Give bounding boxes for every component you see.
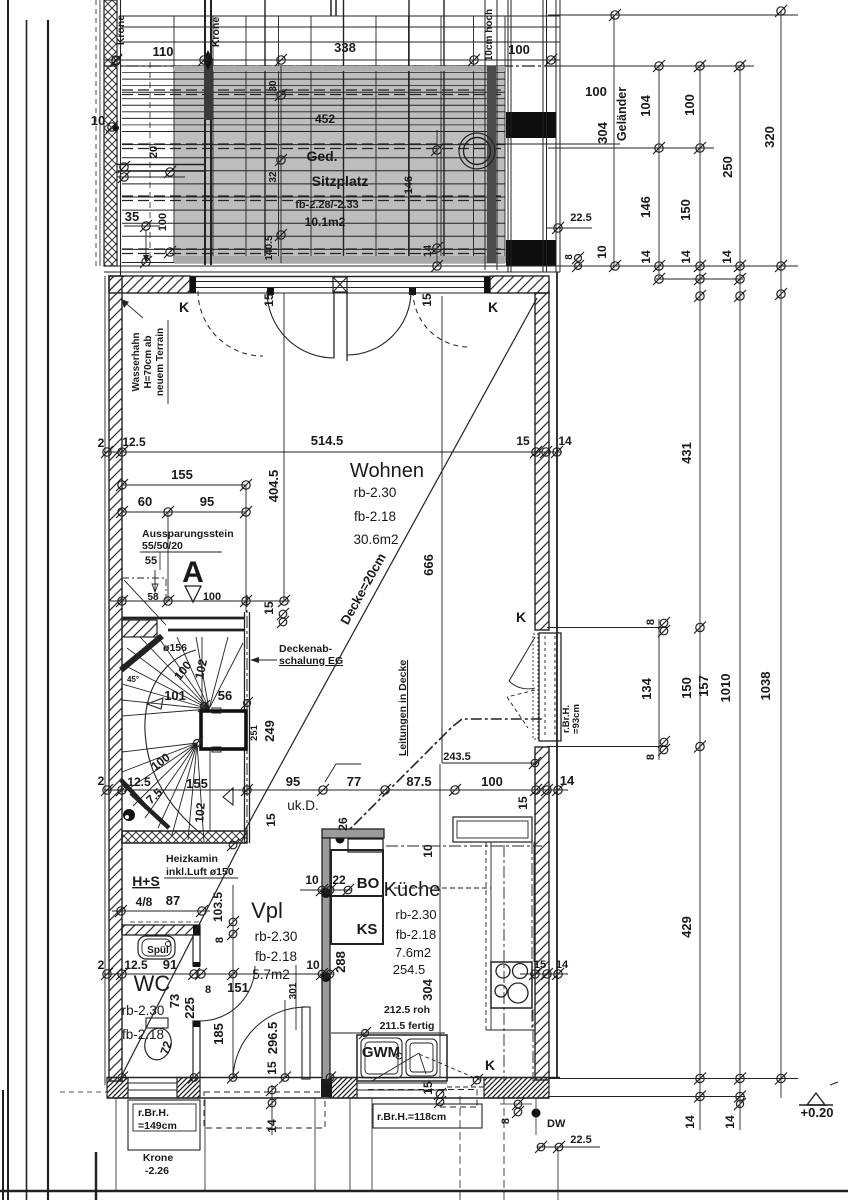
- bottom wall hatch blocks: [107, 1078, 128, 1099]
- bottom page border: [0, 1190, 848, 1192]
- dim 35 arrow: [145, 230, 147, 262]
- svg-text:12.5: 12.5: [127, 775, 151, 789]
- svg-text:404.5: 404.5: [266, 470, 281, 503]
- stair right wall double line: [244, 612, 246, 843]
- svg-text:15: 15: [265, 1061, 279, 1075]
- svg-text:Leitungen in Decke: Leitungen in Decke: [397, 660, 409, 756]
- svg-text:225: 225: [182, 997, 197, 1019]
- svg-text:8: 8: [564, 254, 575, 260]
- svg-text:243.5: 243.5: [443, 751, 471, 763]
- svg-text:15: 15: [516, 434, 530, 448]
- svg-text:GWM: GWM: [362, 1044, 400, 1061]
- svg-text:100: 100: [585, 84, 607, 99]
- svg-text:12.5: 12.5: [122, 435, 146, 449]
- terrace deck vertical joists: [173, 16, 175, 263]
- svg-text:666: 666: [421, 554, 436, 576]
- mid right dims 8/134/8 + 157/150: [547, 627, 668, 629]
- svg-text:301: 301: [288, 982, 299, 999]
- svg-text:8: 8: [205, 984, 211, 996]
- svg-text:26: 26: [336, 817, 350, 831]
- kamin crosshatch band: [122, 831, 247, 843]
- svg-text:fb-2.18: fb-2.18: [396, 927, 436, 942]
- 22.5 bottom: [538, 1146, 600, 1148]
- top wall X-box mullion: [333, 277, 347, 292]
- 243.5 bracket: [441, 728, 443, 763]
- stair newel box: [201, 711, 246, 749]
- left exterior wall: [109, 276, 122, 1081]
- line right of wall full height: [556, 272, 558, 1078]
- svg-text:fb-2.18: fb-2.18: [255, 949, 297, 964]
- svg-text:Spül: Spül: [147, 945, 169, 956]
- bottom wall door leaf + swing: [302, 1007, 310, 1079]
- svg-text:rb-2.30: rb-2.30: [354, 485, 397, 500]
- svg-text:185: 185: [211, 1023, 226, 1045]
- svg-text:ø156: ø156: [163, 642, 187, 654]
- svg-text:212.5 roh: 212.5 roh: [384, 1004, 430, 1016]
- dim 404.5 vertical: [283, 293, 285, 601]
- svg-text:Krone: Krone: [115, 15, 127, 45]
- svg-text:8: 8: [500, 1118, 512, 1124]
- svg-text:10: 10: [305, 873, 319, 887]
- svg-text:KS: KS: [357, 921, 378, 938]
- WC door arc: [200, 966, 255, 1021]
- svg-text:15: 15: [262, 601, 276, 615]
- right exterior wall lower: [535, 747, 549, 1080]
- svg-text:Geländer: Geländer: [615, 87, 629, 141]
- terrace bottom edge lines: [104, 265, 798, 267]
- dashed door projection: [204, 1092, 325, 1128]
- svg-text:=93cm: =93cm: [571, 704, 582, 734]
- svg-text:uk.D.: uk.D.: [287, 798, 319, 813]
- svg-text:Heizkamin: Heizkamin: [166, 853, 218, 865]
- bottom window glazing GWM: [357, 1082, 447, 1084]
- svg-text:45°: 45°: [127, 675, 139, 684]
- svg-text:Wasserhahn: Wasserhahn: [131, 332, 142, 391]
- kitchen bottom left black corner: [321, 1079, 332, 1097]
- terrace gray deck: [174, 66, 505, 264]
- WC toilet: [141, 1025, 174, 1063]
- dark slat bar right side of deck: [487, 66, 496, 263]
- svg-text:H=70cm ab: H=70cm ab: [143, 335, 154, 388]
- dashed recess box: [122, 578, 166, 601]
- svg-text:22.5: 22.5: [570, 212, 591, 224]
- kitchen counter top right: [453, 817, 532, 842]
- svg-text:neuem Terrain: neuem Terrain: [155, 328, 166, 396]
- svg-text:12.5: 12.5: [124, 958, 148, 972]
- svg-text:452: 452: [315, 112, 335, 126]
- svg-text:Küche: Küche: [384, 879, 441, 901]
- svg-text:K: K: [516, 609, 526, 625]
- cupboard door swing: [509, 637, 535, 681]
- right exterior wall upper: [535, 293, 549, 630]
- svg-text:4/8: 4/8: [136, 895, 153, 909]
- svg-text:14: 14: [679, 250, 693, 264]
- svg-text:schalung EG: schalung EG: [279, 655, 343, 667]
- svg-text:101: 101: [164, 688, 186, 703]
- svg-text:22.5: 22.5: [570, 1134, 591, 1146]
- svg-text:Vpl: Vpl: [251, 898, 283, 923]
- bottom window glazing left: [128, 1082, 177, 1084]
- svg-text:110: 110: [153, 44, 174, 59]
- top wall glazing: [190, 276, 490, 278]
- svg-text:100: 100: [481, 774, 503, 789]
- svg-text:15: 15: [262, 293, 276, 307]
- svg-text:32: 32: [268, 171, 279, 183]
- svg-text:155: 155: [171, 467, 193, 482]
- svg-text:250: 250: [720, 156, 735, 178]
- svg-text:K: K: [488, 299, 498, 315]
- svg-text:+0.20: +0.20: [801, 1105, 834, 1120]
- svg-text:104: 104: [638, 94, 653, 116]
- top wall left segment: [109, 276, 190, 293]
- svg-text:8: 8: [214, 937, 226, 943]
- dim 4/8 87: [112, 910, 210, 912]
- svg-text:55/50/20: 55/50/20: [142, 540, 183, 552]
- svg-text:14: 14: [723, 1115, 737, 1129]
- svg-text:251: 251: [249, 724, 260, 741]
- ticks right top: [609, 9, 621, 21]
- svg-text:A: A: [182, 556, 204, 589]
- svg-text:211.5 fertig: 211.5 fertig: [380, 1020, 435, 1032]
- svg-text:fb-2.28/-2.33: fb-2.28/-2.33: [295, 199, 359, 211]
- svg-text:429: 429: [679, 916, 694, 938]
- svg-text:2: 2: [98, 958, 105, 972]
- svg-text:15: 15: [264, 813, 278, 827]
- svg-text:10: 10: [595, 245, 609, 259]
- svg-text:r.Br.H.=118cm: r.Br.H.=118cm: [377, 1111, 446, 1123]
- svg-text:BO: BO: [357, 875, 380, 892]
- svg-text:rb-2.30: rb-2.30: [255, 929, 298, 944]
- scan line left 2: [47, 20, 49, 1200]
- dashed line in deck left strip: [149, 62, 151, 264]
- svg-text:249: 249: [262, 720, 277, 742]
- bottom left corner scan mark: [95, 1152, 98, 1200]
- svg-text:14: 14: [560, 773, 575, 788]
- column circle: [464, 138, 491, 165]
- kitchen dashed counter column: [485, 842, 487, 1030]
- terrace top dim line: [104, 59, 560, 61]
- svg-text:15: 15: [534, 959, 546, 971]
- wall protrusion lines left (20): [117, 164, 205, 166]
- below-wall projection lines: [115, 1098, 117, 1190]
- GWM sink: [357, 1035, 447, 1081]
- wall stub WC/Vpl lower: [193, 1021, 200, 1078]
- svg-text:514.5: 514.5: [311, 433, 344, 448]
- 8 below wall: [512, 1098, 524, 1110]
- scan line far left faint: [7, 0, 9, 1200]
- window box 149: [128, 1100, 200, 1150]
- svg-text:Ged.: Ged.: [306, 148, 337, 164]
- svg-text:K: K: [485, 1057, 495, 1073]
- svg-text:103.5: 103.5: [211, 892, 225, 922]
- svg-text:14: 14: [422, 244, 434, 257]
- svg-text:100: 100: [157, 213, 169, 231]
- svg-text:20: 20: [148, 146, 160, 158]
- svg-text:8: 8: [645, 754, 657, 760]
- dashed right door: [413, 291, 469, 347]
- WC diagonal: [121, 831, 247, 1077]
- stair treads upper: [122, 709, 209, 716]
- wall stub WC/Vpl upper: [193, 935, 200, 966]
- svg-text:fb-2.18: fb-2.18: [354, 509, 396, 524]
- svg-text:157: 157: [696, 675, 711, 697]
- svg-text:100: 100: [508, 42, 530, 57]
- svg-text:rb-2.30: rb-2.30: [395, 907, 436, 922]
- stair walk line spiral: [145, 650, 200, 833]
- svg-text:30: 30: [268, 80, 279, 92]
- svg-text:14: 14: [558, 434, 572, 448]
- dim line y974 right part: [520, 973, 568, 975]
- dim 10 22 line: [300, 889, 352, 891]
- bottom ticks: [116, 1072, 128, 1084]
- svg-text:Aussparungsstein: Aussparungsstein: [142, 528, 234, 540]
- stair treads lower: [122, 743, 197, 752]
- kitchen top wall band gray: [322, 829, 384, 838]
- svg-text:2: 2: [98, 774, 105, 788]
- svg-text:140.5: 140.5: [264, 235, 275, 260]
- svg-text:Wohnen: Wohnen: [350, 460, 424, 482]
- svg-text:14: 14: [720, 250, 734, 264]
- svg-text:151: 151: [227, 980, 249, 995]
- dim line y601: [110, 600, 290, 602]
- leitungen line: [340, 719, 543, 839]
- svg-text:87: 87: [166, 893, 180, 908]
- kitchen dashdot ceiling: [386, 845, 542, 847]
- svg-text:150: 150: [679, 677, 694, 699]
- GWM window projection dashes: [368, 1089, 477, 1091]
- right dim verticals: [613, 15, 615, 266]
- left wall ticks: [110, 55, 122, 67]
- svg-text:=149cm: =149cm: [138, 1120, 177, 1132]
- svg-text:77: 77: [347, 774, 361, 789]
- DW mark: [532, 1109, 541, 1118]
- window box 118: [373, 1104, 482, 1128]
- right dim horizontals: [548, 14, 798, 16]
- stair diagonal wall top-left: [121, 636, 162, 670]
- svg-text:8: 8: [645, 619, 657, 625]
- svg-text:146: 146: [403, 176, 415, 194]
- dim 60 95: [122, 511, 246, 513]
- svg-text:304: 304: [595, 121, 610, 143]
- dim line y790: [104, 789, 568, 791]
- svg-text:60: 60: [138, 494, 152, 509]
- svg-text:10: 10: [91, 113, 105, 128]
- svg-text:56: 56: [218, 688, 232, 703]
- dim 155: [122, 484, 246, 486]
- svg-text:H+S: H+S: [132, 873, 160, 889]
- svg-text:15: 15: [516, 796, 530, 810]
- svg-text:338: 338: [334, 40, 356, 55]
- svg-text:Deckenab-: Deckenab-: [279, 643, 333, 655]
- right posts black blocks: [506, 112, 556, 138]
- terrace inner dim verticals: [280, 66, 282, 263]
- Spül sink: [138, 936, 175, 959]
- top center fence post marks: [330, 0, 332, 16]
- svg-text:1010: 1010: [718, 674, 733, 703]
- stair walk arrows: [147, 698, 163, 709]
- svg-text:Krone: Krone: [143, 1152, 173, 1164]
- svg-text:14: 14: [265, 1119, 279, 1133]
- svg-text:146: 146: [638, 196, 653, 218]
- svg-text:91: 91: [163, 957, 177, 972]
- svg-text:150: 150: [678, 199, 693, 221]
- bottom door dashed: [204, 1091, 325, 1093]
- svg-text:100: 100: [682, 94, 697, 116]
- svg-text:15: 15: [421, 1081, 435, 1095]
- +0.20 level marker: [807, 1093, 825, 1105]
- stove: [491, 962, 532, 1008]
- svg-text:296.5: 296.5: [265, 1022, 280, 1055]
- svg-text:DW: DW: [547, 1118, 566, 1130]
- svg-text:87.5: 87.5: [406, 774, 431, 789]
- svg-text:Krone: Krone: [210, 17, 222, 47]
- dim 666 vertical: [441, 296, 443, 763]
- left wall top (masonry crosshatch): [104, 0, 117, 266]
- right wall cupboard: [539, 633, 561, 741]
- svg-text:73: 73: [167, 994, 182, 1008]
- doors top wall arcs: [198, 291, 263, 356]
- svg-text:95: 95: [200, 494, 214, 509]
- vertical dim line kitchen: [439, 764, 441, 1077]
- WC top wall: [122, 925, 200, 935]
- svg-text:K: K: [179, 299, 189, 315]
- deck darker bottom band: [174, 256, 505, 263]
- stair top wall: [122, 617, 245, 620]
- vertical helper dims: [167, 512, 169, 601]
- dim line y974: [104, 973, 333, 975]
- terrace deck horizontal boards: [122, 15, 560, 17]
- svg-text:320: 320: [762, 126, 777, 148]
- main ceiling diagonal: [245, 298, 537, 830]
- svg-text:15: 15: [420, 293, 434, 307]
- svg-text:14: 14: [556, 959, 569, 971]
- svg-text:134: 134: [639, 677, 654, 699]
- svg-text:1038: 1038: [758, 672, 773, 701]
- kitchen partition wall strip: [322, 838, 330, 1081]
- svg-text:10: 10: [306, 958, 320, 972]
- dark post pair left of deck: [204, 0, 206, 265]
- svg-text:304: 304: [420, 978, 435, 1000]
- svg-text:55: 55: [145, 555, 157, 567]
- double door left leaf: [333, 291, 335, 358]
- svg-text:35: 35: [125, 209, 139, 224]
- svg-text:14: 14: [683, 1115, 697, 1129]
- scan line left 1: [26, 20, 28, 1200]
- svg-text:22: 22: [332, 873, 346, 887]
- 77 bracket: [325, 764, 361, 782]
- svg-text:7.6m2: 7.6m2: [395, 945, 431, 960]
- svg-text:2: 2: [98, 436, 105, 450]
- kitchen cabinets BO/KS: [331, 850, 383, 896]
- svg-text:14: 14: [639, 250, 653, 264]
- svg-text:5.7m2: 5.7m2: [252, 967, 290, 982]
- svg-text:102: 102: [192, 802, 208, 823]
- top wall right segment: [490, 276, 549, 293]
- svg-text:30.6m2: 30.6m2: [353, 532, 398, 547]
- svg-text:10.1m2: 10.1m2: [305, 215, 346, 229]
- svg-text:-2.26: -2.26: [145, 1165, 169, 1177]
- kamin black diagonals: [121, 780, 147, 808]
- Vpl dim verticals: [232, 885, 234, 1077]
- svg-text:155: 155: [186, 776, 208, 791]
- svg-text:95: 95: [286, 774, 300, 789]
- bottom wall outline: [107, 1077, 560, 1079]
- terrace right frame lines: [507, 0, 509, 272]
- svg-text:r.Br.H.: r.Br.H.: [138, 1107, 169, 1119]
- dim line 514.5: [104, 451, 562, 453]
- svg-text:10cm hoch: 10cm hoch: [484, 9, 495, 61]
- bottom right dim lines: [549, 1078, 798, 1080]
- svg-text:254.5: 254.5: [393, 962, 426, 977]
- svg-text:431: 431: [679, 442, 694, 464]
- double door right leaf: [346, 291, 348, 361]
- svg-text:Sitzplatz: Sitzplatz: [312, 173, 369, 189]
